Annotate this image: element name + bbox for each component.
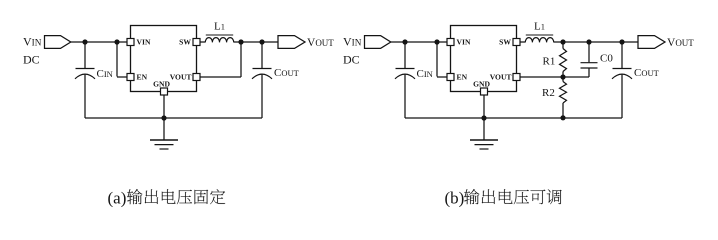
svg-text:R1: R1: [543, 56, 556, 68]
svg-text:DC: DC: [23, 53, 40, 67]
svg-text:SW: SW: [499, 38, 511, 47]
svg-text:CIN: CIN: [97, 68, 113, 80]
svg-text:EN: EN: [137, 73, 148, 82]
svg-text:(b): (b): [445, 189, 465, 208]
svg-text:VIN: VIN: [23, 35, 42, 49]
svg-text:L1: L1: [534, 21, 545, 33]
svg-text:DC: DC: [343, 53, 360, 67]
svg-text:C0: C0: [600, 53, 613, 65]
svg-text:R2: R2: [542, 87, 555, 99]
svg-text:VOUT: VOUT: [170, 73, 192, 82]
svg-text:VOUT: VOUT: [667, 37, 694, 49]
svg-text:VOUT: VOUT: [307, 37, 334, 49]
svg-text:VOUT: VOUT: [490, 73, 512, 82]
svg-text:SW: SW: [179, 38, 191, 47]
svg-text:COUT: COUT: [274, 67, 300, 79]
svg-text:VIN: VIN: [457, 38, 471, 47]
svg-text:VIN: VIN: [137, 38, 151, 47]
svg-text:GND: GND: [153, 79, 170, 88]
svg-text:CIN: CIN: [417, 68, 433, 80]
svg-text:L1: L1: [214, 21, 225, 33]
svg-text:EN: EN: [457, 73, 468, 82]
svg-text:VIN: VIN: [343, 35, 362, 49]
svg-text:(a): (a): [108, 189, 127, 208]
svg-text:GND: GND: [473, 79, 490, 88]
svg-text:COUT: COUT: [634, 67, 660, 79]
